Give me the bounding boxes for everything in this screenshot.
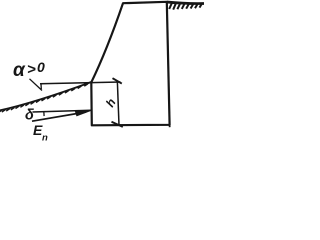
- force arrow En shaft: [32, 112, 86, 121]
- svg-text:n: n: [42, 133, 48, 143]
- delta reference line (horizontal): [33, 110, 92, 112]
- backfill slope line: [0, 82, 91, 111]
- slope hatching: [0, 84, 88, 113]
- delta angle tick: [43, 112, 45, 117]
- svg-text:h: h: [103, 96, 119, 110]
- force arrow En head: [75, 110, 92, 116]
- alpha label leader: [30, 79, 43, 91]
- svg-text:0: 0: [37, 59, 45, 75]
- ground hatching top right: [169, 3, 202, 9]
- dimension tick top: [113, 78, 122, 83]
- ground level extension line: [40, 82, 121, 84]
- wall right face bottom overshoot: [169, 125, 171, 128]
- dimension tick bottom: [112, 122, 123, 127]
- ground line top right: [167, 2, 204, 4]
- svg-text:>: >: [27, 61, 36, 78]
- dimension line h: [117, 82, 119, 125]
- svg-text:α: α: [13, 60, 26, 81]
- alpha angle tick: [40, 84, 42, 89]
- wall outline: [91, 2, 169, 126]
